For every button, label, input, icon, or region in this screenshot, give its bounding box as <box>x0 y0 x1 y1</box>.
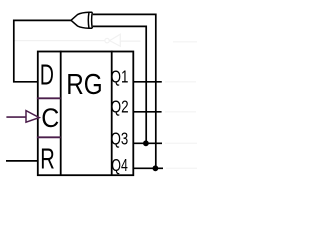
wire Q4 output <box>133 167 163 169</box>
wire lower XOR input from Q3 <box>93 26 146 143</box>
XOR gate DD1 (mirrored, output at left) <box>71 12 92 28</box>
register right column divider <box>111 51 113 176</box>
junction dot Q4 tap <box>153 165 159 171</box>
svg-text:C: C <box>41 103 59 133</box>
wire upper XOR input from Q4 <box>93 14 156 168</box>
svg-text:R: R <box>40 143 55 175</box>
ghost wire (erased inverter net, right segment) <box>120 40 140 42</box>
svg-text:Q2: Q2 <box>111 96 129 116</box>
wire Q2 output <box>133 111 161 113</box>
ghost stub right of Q2 wire <box>165 111 196 113</box>
divider C/R cells (purple) <box>37 136 61 138</box>
ghost stub right of Q1 wire <box>165 81 196 83</box>
register U1 body <box>38 52 134 176</box>
svg-text:Q4: Q4 <box>111 155 128 175</box>
dynamic clock triangle on C input (purple) <box>26 111 39 123</box>
svg-text:RG: RG <box>66 69 102 101</box>
ghost wire stub far right of inverter <box>173 41 197 43</box>
register left column divider <box>60 51 62 176</box>
ghost inverter bubble <box>105 38 109 42</box>
ghost stub right of Q3 wire <box>165 142 197 144</box>
svg-text:D: D <box>40 59 54 91</box>
svg-text:Q1: Q1 <box>111 66 129 86</box>
junction dot Q3 tap <box>143 140 149 146</box>
ghost stub right of Q4 wire <box>166 167 197 169</box>
ghost inverter triangle <box>110 34 121 46</box>
wire R input <box>6 160 38 162</box>
wire Q3 output <box>133 142 162 144</box>
wire Q1 output <box>133 81 162 83</box>
svg-text:Q3: Q3 <box>111 128 129 148</box>
divider D/C cells (purple) <box>37 97 61 99</box>
wire C input (purple) <box>6 116 26 118</box>
wire feedback XOR output to D input <box>14 20 71 81</box>
ghost wire (erased inverter net, left segment) <box>13 40 105 42</box>
